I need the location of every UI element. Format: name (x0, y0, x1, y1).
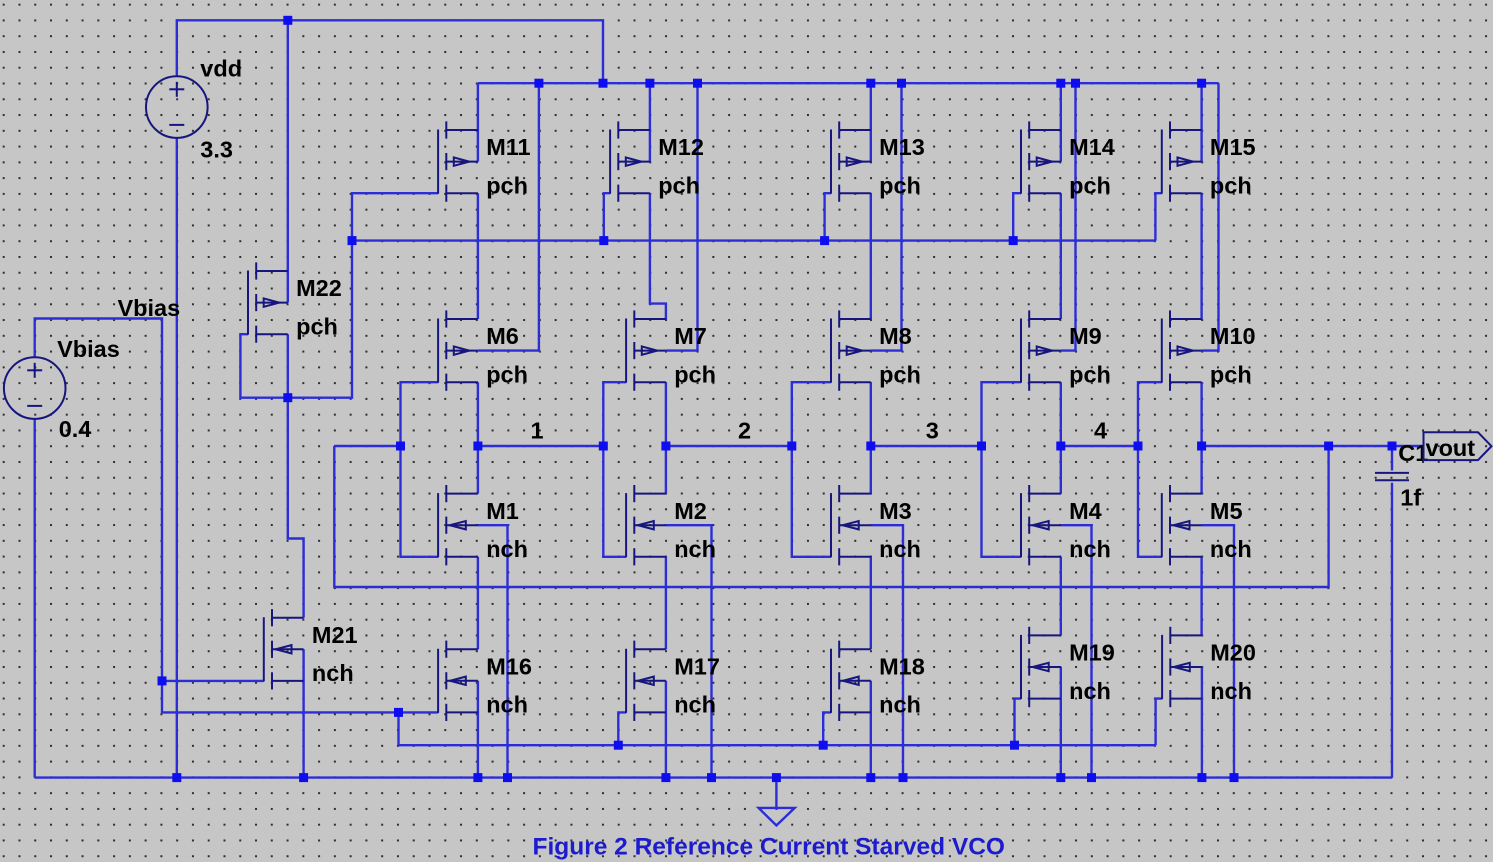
svg-text:1: 1 (530, 418, 543, 444)
junction (599, 79, 608, 88)
junction (599, 442, 608, 451)
wire stage1 input gates (401, 382, 439, 557)
svg-text:pch: pch (879, 172, 921, 198)
voltage source V1 vdd (146, 76, 208, 138)
wire stage3 output (870, 382, 872, 493)
svg-text:M19: M19 (1069, 640, 1115, 666)
wire Vbias minus down (34, 419, 36, 777)
wire M14 gate to bias rail (1013, 193, 1021, 240)
wire node 3 (871, 445, 982, 447)
transistor M17 (nch) (626, 641, 666, 721)
svg-text:nch: nch (879, 692, 921, 718)
svg-text:pch: pch (674, 361, 716, 387)
svg-text:M2: M2 (674, 498, 707, 524)
wire M8 body to vdd (871, 83, 902, 350)
transistor M22 (pch) (248, 262, 288, 342)
wire vdd minus down (176, 138, 178, 778)
svg-text:vout: vout (1426, 435, 1476, 461)
wire M21 gate (162, 680, 264, 682)
junction (158, 676, 167, 685)
svg-text:1f: 1f (1400, 485, 1421, 511)
transistor M11 (pch) (438, 121, 478, 201)
wire M12 drain to M7 (jog) (650, 193, 666, 319)
svg-text:3: 3 (926, 418, 939, 444)
svg-text:nch: nch (312, 660, 354, 686)
junction (534, 79, 543, 88)
svg-text:pch: pch (1069, 361, 1111, 387)
junction (283, 16, 292, 25)
transistor M21 (nch) (264, 609, 304, 689)
wire M4 source down (1060, 557, 1062, 636)
junction (866, 773, 875, 782)
junction (897, 79, 906, 88)
svg-text:M18: M18 (879, 653, 925, 679)
wire vdd rail (478, 82, 1219, 84)
junction (1056, 442, 1065, 451)
wire M22 source to vdd (287, 20, 289, 302)
junction (787, 442, 796, 451)
transistor M8 (pch) (831, 310, 871, 390)
voltage source V2 Vbias (4, 357, 66, 419)
wire M20 source/body to ground (1201, 667, 1203, 778)
wire M20 gate (1156, 699, 1163, 746)
transistor M18 (nch) (831, 641, 871, 721)
svg-text:nch: nch (674, 536, 716, 562)
junction (503, 773, 512, 782)
junction (661, 773, 670, 782)
transistor M14 (pch) (1021, 121, 1061, 201)
wire M3 body to ground (871, 525, 903, 777)
svg-text:pch: pch (1069, 172, 1111, 198)
svg-text:M9: M9 (1069, 323, 1102, 349)
junction (693, 79, 702, 88)
transistor M15 (pch) (1162, 121, 1202, 201)
wire node 1 (478, 445, 603, 447)
svg-text:nch: nch (486, 692, 528, 718)
wire M6 body to vdd (478, 83, 539, 350)
capacitor C1 (1375, 473, 1409, 480)
svg-text:4: 4 (1094, 418, 1107, 444)
wire M10 body to vdd (1202, 83, 1219, 350)
wire M5 body to ground (1202, 525, 1234, 777)
svg-text:M21: M21 (312, 622, 358, 648)
junction (1087, 773, 1096, 782)
wire M22 gate-drain tie (240, 334, 287, 398)
wire M14 source/body drop (1060, 83, 1062, 161)
svg-text:Vbias: Vbias (57, 336, 120, 362)
junction (614, 741, 623, 750)
junction (283, 393, 292, 402)
svg-text:M10: M10 (1210, 323, 1256, 349)
wire M17 gate (618, 712, 626, 745)
wire M11 source/body drop (477, 83, 479, 161)
junction (977, 442, 986, 451)
wire M18 gate (823, 712, 831, 745)
junction (1324, 442, 1333, 451)
wire M13 gate to bias rail (825, 193, 831, 240)
wire stage3 input gates (792, 382, 831, 557)
wire stage1 output (477, 382, 479, 493)
svg-text:M8: M8 (879, 323, 912, 349)
wire ground rail (35, 776, 1392, 778)
junction (1197, 773, 1206, 782)
transistor M16 (nch) (438, 641, 478, 721)
junction (1056, 773, 1065, 782)
junction (348, 236, 357, 245)
svg-text:M1: M1 (486, 498, 519, 524)
svg-text:pch: pch (1210, 172, 1252, 198)
junction (866, 79, 875, 88)
wire M13 source/body drop (870, 83, 872, 161)
svg-text:nch: nch (1069, 678, 1111, 704)
wire vdd top (177, 20, 603, 83)
svg-text:pch: pch (486, 361, 528, 387)
junction (396, 442, 405, 451)
wire M15 gate to bias rail (1155, 193, 1161, 240)
svg-text:3.3: 3.3 (200, 137, 233, 163)
svg-text:M22: M22 (296, 275, 342, 301)
port vout (1424, 432, 1492, 460)
wire M18 source/body to ground (870, 681, 872, 778)
wire M19 gate (1015, 699, 1022, 746)
transistor M9 (pch) (1021, 310, 1061, 390)
wire M15 drain to M10 (1200, 193, 1202, 319)
svg-text:nch: nch (674, 692, 716, 718)
wire node 4 (1061, 445, 1138, 447)
svg-text:M5: M5 (1210, 498, 1243, 524)
junction (1230, 773, 1239, 782)
wire lower bias rail (399, 744, 1156, 746)
wire vout feedback loop (334, 446, 1328, 587)
transistor M1 (nch) (438, 485, 478, 565)
wire M16 source/body to ground (477, 681, 479, 778)
junction (899, 773, 908, 782)
junction (1197, 79, 1206, 88)
svg-text:M6: M6 (486, 323, 519, 349)
junction (1010, 741, 1019, 750)
wire M2 source down (665, 557, 667, 649)
wire M17 source/body to ground (665, 681, 667, 778)
wire M7 body to vdd (666, 83, 698, 350)
svg-text:nch: nch (1210, 536, 1252, 562)
junction (866, 442, 875, 451)
transistor M19 (nch) (1021, 627, 1061, 707)
svg-text:M12: M12 (658, 134, 704, 160)
svg-text:pch: pch (296, 313, 338, 339)
junction (299, 773, 308, 782)
svg-text:M7: M7 (674, 323, 707, 349)
wire stage2 input gates (603, 382, 626, 557)
svg-text:pch: pch (879, 361, 921, 387)
junction (473, 442, 482, 451)
svg-text:0.4: 0.4 (59, 416, 92, 442)
wire M9 body to vdd (1061, 83, 1076, 350)
wire C1 top (1391, 446, 1393, 471)
wire bias drop to lower rail (397, 712, 399, 745)
svg-text:vdd: vdd (200, 56, 242, 82)
wire M11 drain to M6 (477, 193, 479, 319)
wire M15 source/body drop (1200, 83, 1202, 161)
junction (172, 773, 181, 782)
wire M5 source down (1200, 557, 1202, 636)
wire M12 source/body drop (649, 83, 651, 161)
transistor M4 (nch) (1021, 485, 1061, 565)
wire M19 source/body to ground (1060, 667, 1062, 778)
junction (1009, 236, 1018, 245)
wire M22 drain to bias rail (288, 241, 352, 398)
svg-text:M14: M14 (1069, 134, 1115, 160)
wire M22 drain (287, 334, 289, 398)
junction (599, 236, 608, 245)
junction (645, 79, 654, 88)
wire M14 drain to M9 (1060, 193, 1062, 319)
svg-text:Vbias: Vbias (118, 295, 181, 321)
junction (661, 442, 670, 451)
junction (473, 773, 482, 782)
wire stage5 output (1200, 382, 1202, 493)
svg-text:nch: nch (1069, 536, 1111, 562)
svg-text:pch: pch (486, 172, 528, 198)
wire M11 gate to bias rail (352, 193, 438, 240)
wire M4 body to ground (1061, 525, 1092, 777)
junction (1197, 442, 1206, 451)
transistor M2 (nch) (626, 485, 666, 565)
junction (772, 773, 781, 782)
junction (394, 708, 403, 717)
wire M1 source down (477, 557, 479, 649)
svg-text:pch: pch (658, 172, 700, 198)
wire Vbias net (35, 319, 438, 713)
svg-text:M17: M17 (674, 653, 720, 679)
svg-text:2: 2 (738, 418, 751, 444)
svg-text:nch: nch (1210, 678, 1252, 704)
transistor M6 (pch) (438, 310, 478, 390)
transistor M13 (pch) (831, 121, 871, 201)
wire bias mid rail (352, 239, 1155, 241)
ground (759, 778, 795, 826)
junction (819, 741, 828, 750)
junction (1056, 79, 1065, 88)
wire stage5 input gates (1138, 382, 1162, 557)
wire M2 body to ground (666, 525, 712, 777)
svg-text:pch: pch (1210, 361, 1252, 387)
wire M12 gate to bias rail (604, 193, 610, 240)
wire M22 drain to M21 drain (288, 398, 304, 618)
wire M3 source down (870, 557, 872, 649)
transistor M5 (nch) (1162, 485, 1202, 565)
junction (820, 236, 829, 245)
svg-text:M16: M16 (486, 653, 532, 679)
transistor M20 (nch) (1162, 627, 1202, 707)
wire stage4 input gates (982, 382, 1022, 557)
wire node 2 (666, 445, 792, 447)
svg-text:M13: M13 (879, 134, 925, 160)
wire stage2 output (665, 382, 667, 493)
wire C1 bottom to ground (1391, 483, 1393, 778)
junction (1388, 442, 1397, 451)
wire node vout (1202, 445, 1424, 447)
svg-text:nch: nch (486, 536, 528, 562)
svg-text:M20: M20 (1210, 640, 1256, 666)
transistor M12 (pch) (610, 121, 650, 201)
svg-text:Figure 2 Reference Current Sta: Figure 2 Reference Current Starved VCO (533, 834, 1005, 861)
transistor M7 (pch) (626, 310, 666, 390)
svg-text:M15: M15 (1210, 134, 1256, 160)
wire stage4 output (1060, 382, 1062, 493)
transistor M3 (nch) (831, 485, 871, 565)
svg-text:M3: M3 (879, 498, 912, 524)
svg-text:nch: nch (879, 536, 921, 562)
junction (1071, 79, 1080, 88)
junction (1134, 442, 1143, 451)
wire M21 source/body to ground (302, 649, 304, 777)
svg-text:M11: M11 (486, 134, 530, 160)
wire node vout to stage1 input (334, 445, 400, 447)
wire M1 body to ground (478, 525, 508, 777)
svg-text:M4: M4 (1069, 498, 1102, 524)
junction (707, 773, 716, 782)
wire M13 drain to M8 (870, 193, 872, 319)
transistor M10 (pch) (1162, 310, 1202, 390)
